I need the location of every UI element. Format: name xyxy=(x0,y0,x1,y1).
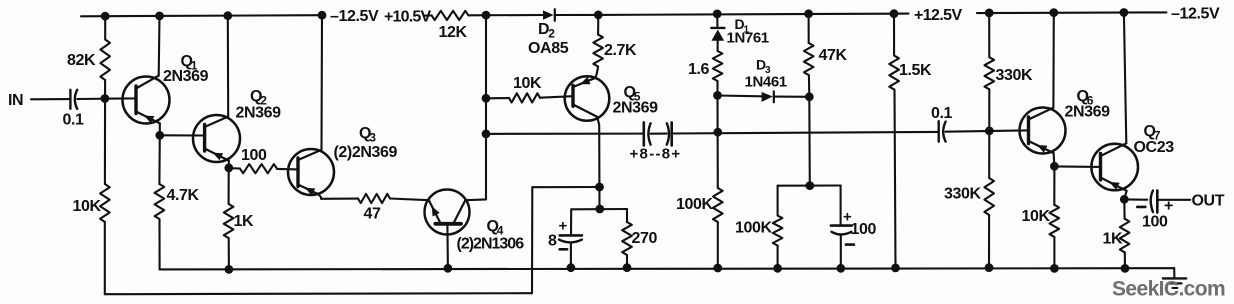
wire 10K bottom to rail B xyxy=(104,222,106,294)
resistor R 270 xyxy=(622,222,632,255)
node 12K right junction xyxy=(482,11,490,19)
capacitor C +8--8+ right xyxy=(667,122,672,145)
resistor R 100K (first) xyxy=(713,188,723,222)
svg-text:2.7K: 2.7K xyxy=(604,42,637,59)
label 1K (out) xyxy=(1103,230,1123,247)
svg-text:1K: 1K xyxy=(1103,230,1123,247)
resistor R 1.5K xyxy=(889,14,899,90)
resistor R 100 (horizontal) xyxy=(229,164,298,173)
label 2N369 (Q5) xyxy=(613,100,659,117)
node 82K top xyxy=(101,12,109,20)
wire 1K bottom to rail A xyxy=(228,238,230,270)
svg-text:10K: 10K xyxy=(1022,208,1051,225)
resistor R 10K (input) xyxy=(100,184,110,222)
wire Q3 emitter elbow xyxy=(319,194,359,198)
svg-text:2N369: 2N369 xyxy=(1065,103,1111,120)
svg-text:2: 2 xyxy=(548,27,555,41)
resistor R 270 lead xyxy=(626,209,628,222)
label D1 xyxy=(735,16,750,36)
wire rail middle xyxy=(598,14,908,15)
label OUT xyxy=(1192,193,1225,210)
wire 0.1 to Q6 base xyxy=(946,130,1029,131)
svg-text:+: + xyxy=(559,217,568,234)
svg-text:SeekIC.com: SeekIC.com xyxy=(1112,278,1225,301)
node rail A 1K(Q2) xyxy=(225,266,233,274)
wire 4.7K bottom to rail A xyxy=(158,219,160,269)
node Q2 collector top xyxy=(224,12,232,20)
node rail A 10K-right xyxy=(1051,265,1059,273)
node cap8 bottom xyxy=(567,264,575,272)
wire to left return xyxy=(532,186,599,188)
label -12.5V (left) xyxy=(330,8,379,25)
wire D3-node down xyxy=(808,97,811,186)
wire left return vertical xyxy=(531,187,533,293)
node Q3 collector top (rail end) xyxy=(318,11,326,19)
label 330K (top) xyxy=(996,67,1033,84)
label 1.5K xyxy=(899,62,932,79)
node 10K tap xyxy=(482,94,490,102)
svg-text:OA85: OA85 xyxy=(528,40,569,57)
svg-text:1.6: 1.6 xyxy=(688,61,710,78)
wire Q6 emitter to Q7 base xyxy=(1054,165,1100,168)
node rail A Q4 xyxy=(444,264,452,272)
svg-text:47: 47 xyxy=(364,205,381,222)
wire coupling line left xyxy=(486,133,644,135)
wire 100K-2 bottom xyxy=(777,246,779,269)
label OC23 xyxy=(1134,139,1175,156)
svg-text:12K: 12K xyxy=(439,24,468,41)
svg-text:2N369: 2N369 xyxy=(236,105,282,122)
resistor R 1.6 xyxy=(713,51,723,81)
label IN xyxy=(8,92,23,109)
capacitor C-in 0.1 xyxy=(70,90,77,109)
wire 1.6 to node xyxy=(716,81,718,95)
node rail A 1.5K xyxy=(892,264,900,272)
label 8 xyxy=(548,233,557,250)
resistor R 12K (horizontal) xyxy=(432,11,469,20)
resistor R 82K xyxy=(100,40,110,81)
wire +100 bottom xyxy=(840,236,842,268)
label 2N369 (Q6) xyxy=(1065,103,1111,120)
diode D3 1N461 xyxy=(762,91,774,102)
transistor Q6 2N369 xyxy=(1020,108,1066,154)
resistor R 47K xyxy=(804,14,814,97)
svg-text:1N761: 1N761 xyxy=(727,30,769,47)
node Q5 collector junction 1 xyxy=(596,183,604,191)
svg-text:(2)2N369: (2)2N369 xyxy=(334,144,398,161)
svg-text:47K: 47K xyxy=(819,47,848,64)
svg-text:2N369: 2N369 xyxy=(613,100,659,117)
wire coupling line right xyxy=(672,132,939,134)
resistor R 330K (bottom) xyxy=(984,131,994,215)
node rail A +100 xyxy=(837,264,845,272)
wire bottom rail A xyxy=(160,268,1175,269)
label +8--8+ xyxy=(630,145,682,162)
svg-text:–12.5V: –12.5V xyxy=(330,8,379,25)
capacitor C 0.1 (right) xyxy=(939,121,946,141)
resistor R 47 (horizontal) xyxy=(358,194,390,203)
node 185 junction xyxy=(806,182,814,190)
wire between caps xyxy=(651,133,667,135)
capacitor C +100 lead xyxy=(840,186,842,226)
resistor R 1K (out) lead xyxy=(1123,199,1125,218)
wire Q6 emitter down xyxy=(1053,153,1056,166)
wire 1.5K bottom long xyxy=(895,90,896,268)
wire top -12.5V rail (left section) xyxy=(81,15,322,16)
label 2N369 (Q1) xyxy=(163,68,209,85)
label 2N369 (Q2) xyxy=(236,105,282,122)
transistor Q7 OC23 xyxy=(1091,143,1138,191)
wire 10K-right bottom xyxy=(1053,237,1055,269)
label OA85 xyxy=(528,40,569,57)
svg-text:270: 270 xyxy=(632,230,658,247)
node Q7 emitter junction xyxy=(1120,195,1128,203)
label 270 xyxy=(632,230,658,247)
wire Q1 collector to rail xyxy=(158,16,161,76)
capacitor C 8uF plates xyxy=(559,235,582,242)
svg-text:100: 100 xyxy=(851,221,877,238)
label Q7 xyxy=(1144,123,1161,143)
svg-text:1.5K: 1.5K xyxy=(899,62,932,79)
wire Q7 collector up xyxy=(1124,13,1126,144)
wire 12K to D2 xyxy=(468,14,543,16)
svg-text:3: 3 xyxy=(369,131,376,145)
resistor R 2.7K xyxy=(593,15,603,67)
label 2.7K xyxy=(604,42,637,59)
wire Q1 emitter to Q2 base xyxy=(160,134,205,136)
label 10K (Q5) xyxy=(513,75,542,92)
node Q7 collector top xyxy=(1120,9,1128,17)
resistor R 10K (Q5 base) xyxy=(486,93,573,102)
wire Q2 collector to rail xyxy=(227,16,229,117)
node D1 top xyxy=(713,10,721,18)
label 10K (right) xyxy=(1022,208,1051,225)
label 47 xyxy=(364,205,381,222)
wire Q4 base to rail A xyxy=(446,224,449,268)
wire Q2 emitter down xyxy=(228,161,230,168)
svg-text:–12.5V: –12.5V xyxy=(1171,5,1220,22)
wire 330K-2 bottom xyxy=(988,215,990,268)
label Q6 xyxy=(1077,88,1094,108)
label 1.6 xyxy=(688,61,710,78)
svg-text:4.7K: 4.7K xyxy=(167,187,200,204)
capacitor C +8--8+ left xyxy=(644,122,651,145)
svg-text:10K: 10K xyxy=(73,198,102,215)
label + (C-out) xyxy=(1164,197,1173,214)
label 100 (Q2-Q3) xyxy=(241,147,267,164)
svg-text:100: 100 xyxy=(1142,213,1168,230)
svg-text:330K: 330K xyxy=(944,185,981,202)
resistor R 10K (right) lead xyxy=(1053,166,1055,205)
wire C-in to Q1 base xyxy=(77,97,136,100)
node Q1 emitter junction xyxy=(156,131,164,139)
resistor R 10K (right) xyxy=(1050,205,1060,237)
capacitor C +100 plates xyxy=(831,226,852,235)
transistor Q5 2N369 xyxy=(565,76,610,121)
label + (cap8) xyxy=(559,217,568,234)
svg-text:100: 100 xyxy=(241,147,267,164)
svg-text:0.1: 0.1 xyxy=(63,112,85,129)
label Q5 xyxy=(624,84,641,104)
label 82K xyxy=(67,52,96,69)
label (2)2N369 xyxy=(334,144,398,161)
svg-text:100K: 100K xyxy=(676,196,713,213)
label Q2 xyxy=(250,88,267,108)
node rail A 330K xyxy=(985,264,993,272)
wire Q4 collector right xyxy=(465,198,486,201)
svg-text:8: 8 xyxy=(548,233,557,250)
svg-text:(2)2N1306: (2)2N1306 xyxy=(457,235,525,252)
resistor R 330K (top) xyxy=(985,13,995,89)
node coupling-line tap xyxy=(482,130,490,138)
wire 100K-1 bottom xyxy=(717,222,719,268)
label D2 xyxy=(538,21,555,41)
transistor Q1 2N369 xyxy=(123,76,170,124)
label 4.7K xyxy=(167,187,200,204)
node Q6 collector top xyxy=(1050,9,1058,17)
node rail A 100K-2 xyxy=(774,264,782,272)
svg-text:82K: 82K xyxy=(67,52,96,69)
label - (+100 cap) xyxy=(846,243,854,246)
label Q1 xyxy=(181,53,198,73)
resistor R 4.7K xyxy=(155,184,165,219)
svg-text:OUT: OUT xyxy=(1192,193,1225,210)
node 47K top xyxy=(805,10,813,18)
label +10.5V xyxy=(384,8,431,25)
label - (cap8) xyxy=(560,248,567,251)
wire D3 cathode xyxy=(774,96,810,98)
node Q5 collector junction 2 xyxy=(596,205,604,213)
resistor R 4.7K lead xyxy=(158,135,161,184)
transistor Q2 2N369 xyxy=(193,115,240,162)
wire D3 anode xyxy=(718,94,762,97)
wire cap8 bottom xyxy=(570,244,572,268)
svg-text:10K: 10K xyxy=(513,75,542,92)
node 330K top xyxy=(985,9,993,17)
watermark SeekIC.com xyxy=(1112,278,1225,301)
svg-text:1K: 1K xyxy=(234,213,254,230)
wire Q1 emitter down xyxy=(159,123,161,135)
node rail A 1K-out xyxy=(1121,265,1129,273)
node 330K mid tap xyxy=(985,127,993,135)
wire D-chain vertical xyxy=(716,95,718,188)
label 100K (second) xyxy=(735,220,772,237)
label 100 (+100 cap) xyxy=(851,221,877,238)
wire Q3 collector to rail xyxy=(320,15,323,150)
node Q1 collector top xyxy=(156,12,164,20)
node input/bias junction xyxy=(101,95,109,103)
svg-text:+12.5V: +12.5V xyxy=(914,7,962,24)
wire Q7 emitter to C-out xyxy=(1124,198,1147,200)
diode D2 xyxy=(543,9,555,21)
resistor R 100K (second) xyxy=(773,216,783,246)
wire Q7 emitter down xyxy=(1124,191,1126,200)
diode D1 1N761 xyxy=(711,14,724,41)
wire 270 bottom xyxy=(626,255,628,268)
wire 2.7K to Q5 emitter xyxy=(596,67,599,78)
svg-text:2N369: 2N369 xyxy=(163,68,209,85)
label 330K (bottom) xyxy=(944,185,981,202)
resistor R 100K (second) lead xyxy=(777,186,779,216)
wire bottom rail B xyxy=(105,293,532,294)
label 10K (input) xyxy=(73,198,102,215)
resistor R 1K (out) xyxy=(1120,219,1130,253)
wire 82K to 10K xyxy=(104,80,106,184)
wire 12K-junction vertical xyxy=(485,15,487,199)
svg-text:330K: 330K xyxy=(996,67,1033,84)
wire +10.5V to 12K xyxy=(425,14,432,16)
node Q2 emitter junction xyxy=(225,164,233,172)
transistor Q4 (2)2N1306 xyxy=(425,190,470,235)
capacitor C-out 100 xyxy=(1151,191,1158,213)
transistor Q3 (2)2N369 xyxy=(288,149,334,196)
resistor R 1K (Q2) lead xyxy=(228,168,230,204)
label 0.1 (input cap) xyxy=(63,112,85,129)
wire 330K-1 bottom xyxy=(988,89,990,131)
svg-text:1N461: 1N461 xyxy=(745,74,787,91)
node D3 cathode xyxy=(805,93,813,101)
node coupling at D-chain xyxy=(714,128,722,136)
node 270 bottom xyxy=(623,264,631,272)
svg-text:100K: 100K xyxy=(735,220,772,237)
wire 1K-out bottom xyxy=(1124,252,1126,268)
label -12.5V (right) xyxy=(1171,5,1220,22)
node 1.5K top xyxy=(890,10,898,18)
wire D2 to 2.7K top xyxy=(555,14,599,16)
label + (+100 cap) xyxy=(843,209,852,226)
label - (C-out) xyxy=(1137,206,1145,209)
svg-text:+10.5V: +10.5V xyxy=(384,8,431,25)
label 1N461 xyxy=(745,74,787,91)
wire top rail (right section) xyxy=(977,11,1166,14)
wire cap8-270 top xyxy=(571,208,627,210)
wire D1 to 1.6 xyxy=(717,41,719,51)
label 1N761 xyxy=(727,30,769,47)
resistor R 1K (Q2) xyxy=(224,204,234,238)
label 100K (first) xyxy=(676,196,713,213)
wire 185 net xyxy=(778,184,841,186)
label 1K (Q2) xyxy=(234,213,254,230)
label +12.5V xyxy=(914,7,962,24)
node Q6 emitter junction xyxy=(1051,162,1059,170)
svg-text:0.1: 0.1 xyxy=(931,105,953,122)
label 12K xyxy=(439,24,468,41)
wire 82K vertical top xyxy=(104,16,106,39)
node D3 anode xyxy=(714,92,722,100)
label (2)2N1306 xyxy=(457,235,525,252)
wire cap8 lead xyxy=(570,209,572,234)
node D2 cathode junction xyxy=(594,11,602,19)
wire Q6 collector up xyxy=(1052,13,1055,108)
wire 47 to Q4 emitter xyxy=(390,199,429,201)
wire C-out to OUT xyxy=(1157,199,1190,201)
label D3 xyxy=(756,57,771,77)
label Q4 xyxy=(487,218,504,238)
ground xyxy=(1163,268,1186,288)
node rail A 100K-1 xyxy=(714,264,722,272)
svg-text:OC23: OC23 xyxy=(1134,139,1175,156)
label 0.1 (right) xyxy=(931,105,953,122)
wire IN to C-in xyxy=(31,98,70,100)
label 100 (C-out) xyxy=(1142,213,1168,230)
svg-text:IN: IN xyxy=(8,92,23,109)
wire Q5 collector down xyxy=(597,117,599,209)
label Q3 xyxy=(359,125,376,145)
svg-text:+8--8+: +8--8+ xyxy=(630,145,682,162)
label 47K xyxy=(819,47,848,64)
